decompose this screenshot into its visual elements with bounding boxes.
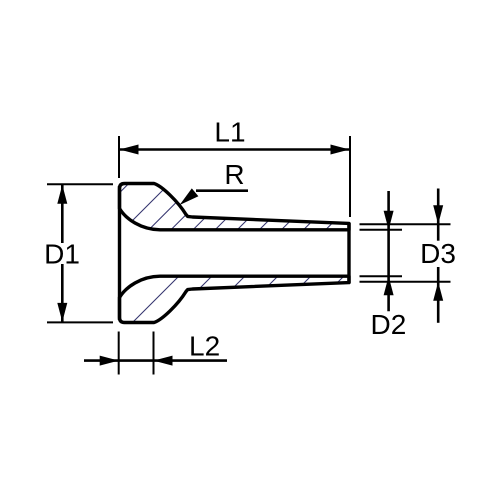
svg-text:R: R <box>224 159 244 190</box>
L1 arrow left <box>120 145 139 155</box>
part outline: top wall section <box>120 184 350 230</box>
D3 arrow down <box>433 205 443 224</box>
R leader line <box>196 189 248 192</box>
dimension D1 line upper segment <box>61 185 64 243</box>
dimension D1 line lower segment <box>61 264 64 322</box>
dimension L2 extension line left <box>118 332 120 375</box>
hatching top wall <box>0 160 418 340</box>
D3 arrow up <box>433 282 443 301</box>
R leader arrowhead <box>180 188 199 205</box>
dimension D1 extension line top <box>47 183 113 185</box>
part outline: bottom wall section <box>120 276 350 322</box>
svg-text:L1: L1 <box>214 117 245 148</box>
dimension L1 line <box>120 148 349 151</box>
svg-text:D1: D1 <box>44 239 80 270</box>
D2 arrow up <box>384 276 394 295</box>
D2 arrow down <box>384 211 394 230</box>
L2 arrow pointing left <box>154 356 173 366</box>
left face line <box>118 186 121 320</box>
L2 arrow pointing right <box>100 356 119 366</box>
dimension L2 extension line right <box>153 332 155 375</box>
dimension L2 line <box>84 359 227 362</box>
D1 arrow up <box>57 185 67 204</box>
dimension D1 extension line bottom <box>47 321 113 323</box>
dimension L1 extension line left <box>118 136 120 178</box>
svg-text:D3: D3 <box>420 238 456 269</box>
tube end face line <box>347 223 350 283</box>
svg-text:L2: L2 <box>189 331 220 362</box>
D2 extension line bore top <box>360 229 403 231</box>
svg-text:D2: D2 <box>371 309 407 340</box>
dimension D3 line lower segment <box>437 267 440 323</box>
D2 D3 extension line outer bottom <box>360 281 451 283</box>
D2 D3 extension line outer top <box>360 223 451 225</box>
L1 arrow right <box>331 145 350 155</box>
dimension D2 line <box>387 191 390 311</box>
D2 extension line bore bottom <box>360 275 403 277</box>
dimension L1 extension line right <box>349 136 351 217</box>
D1 arrow down <box>57 303 67 322</box>
hatching bottom wall <box>110 200 420 345</box>
dimension D3 line upper segment <box>437 189 440 241</box>
